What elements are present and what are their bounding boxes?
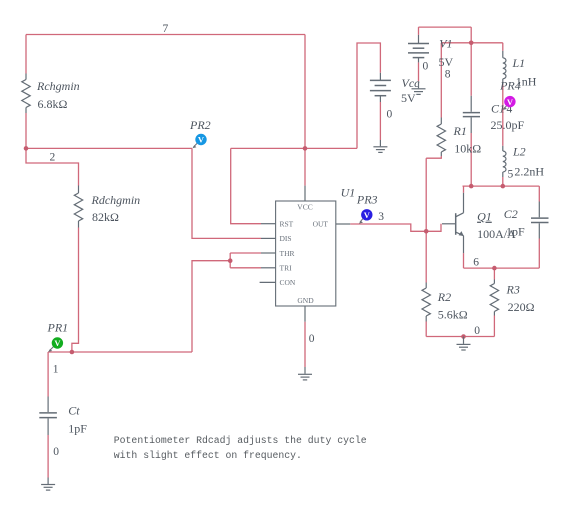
svg-text:VCC: VCC [297,203,312,212]
wire C1 top [470,43,472,96]
svg-text:DIS: DIS [280,234,292,243]
svg-text:R1: R1 [453,124,467,138]
junction node emitter R3 [492,266,497,271]
svg-text:0: 0 [53,446,59,458]
wire down to DIS pin [192,148,261,238]
wire Rchgmin bottom to junction [25,113,27,148]
junction node collector C1 [469,184,474,189]
wire bottom ground rail [426,336,494,338]
svg-text:R2: R2 [437,290,451,304]
wire C2 top [538,186,540,201]
wire R3 bottom [493,316,495,337]
wire RST riser [231,148,261,223]
svg-text:1: 1 [53,363,59,375]
svg-text:0: 0 [474,325,480,337]
wire trigger net horizontal [48,351,192,353]
wire V1 top horizontal [419,26,472,28]
svg-text:100A/A: 100A/A [477,227,516,241]
wire Ct bottom [47,435,49,478]
ground bottom rail [457,337,471,351]
capacitor C2 [504,202,549,239]
svg-text:10kΩ: 10kΩ [454,142,481,156]
wire vcc horizontal [231,147,357,149]
junction node VCC [303,146,308,151]
wire base jog [426,224,441,232]
svg-text:V: V [198,135,205,145]
resistor R1 [437,118,481,157]
svg-text:3: 3 [378,211,384,223]
ground below Vcc battery [373,140,387,152]
svg-text:C2: C2 [504,207,518,221]
svg-text:RST: RST [280,220,294,229]
svg-text:TRI: TRI [280,264,293,273]
wire collector pink [463,186,465,193]
ground below 555 [298,367,312,380]
wire THR-TRI tie [229,253,231,268]
wire 555 gnd [304,322,306,367]
svg-text:Ct: Ct [68,403,80,417]
ground below Ct [41,478,55,491]
svg-text:7: 7 [163,23,169,35]
capacitor C1 [463,96,525,133]
wire emitter net [464,267,540,269]
svg-text:Potentiometer Rdcadj adjusts t: Potentiometer Rdcadj adjusts the duty cy… [114,435,367,446]
wire R1 bottom jog [426,156,441,158]
svg-text:R3: R3 [506,282,520,296]
wire V1 net drop [470,27,472,43]
probe PR4 [499,79,521,110]
wire to TRI pin [230,267,261,269]
svg-text:L2: L2 [512,144,526,158]
resistor Rchgmin [22,74,80,114]
wire R1 top [440,43,442,118]
svg-text:25.0pF: 25.0pF [491,118,525,132]
junction node V1 plus [469,41,474,46]
probe PR2 [189,118,211,148]
wire net7 riser [304,35,306,149]
svg-text:Vcc: Vcc [402,76,421,90]
junction node THR/TRI [228,258,233,263]
probe PR1 [47,320,69,352]
svg-text:C1: C1 [491,102,505,116]
op-amp U1 555 timer box [260,185,356,321]
wire riser to THR/TRI [192,261,230,352]
resistor R2 [422,283,468,322]
wire C1 bottom [470,133,472,186]
svg-text:220Ω: 220Ω [508,300,535,314]
svg-text:8: 8 [445,69,451,81]
wire L1 to L2 [502,85,504,146]
svg-text:V: V [364,210,371,220]
svg-text:2.2nH: 2.2nH [514,165,544,179]
junction node base [424,229,429,234]
svg-text:5.6kΩ: 5.6kΩ [438,308,468,322]
junction node DIS left [24,146,29,151]
wire V1 horizontal rail [441,42,503,44]
wire Rchgmin top lead [25,35,27,74]
svg-text:5: 5 [508,169,514,181]
wire R2 bottom [425,322,427,337]
wire C2 bottom [538,239,540,269]
probe PR3 [356,193,378,224]
resistor R3 [490,280,534,316]
svg-text:PR4: PR4 [499,79,521,93]
wire V1 bottom [418,62,420,81]
resistor Rdchgmin [74,186,140,228]
inductor L1 [503,51,537,89]
wire net7 top rail [26,34,305,36]
wire Vcc battery to ground [379,102,381,140]
battery Vcc [370,73,420,105]
wire VCC pin riser [304,148,306,185]
svg-text:0: 0 [309,333,315,345]
svg-text:Rdchgmin: Rdchgmin [91,193,141,207]
svg-text:V: V [507,97,514,107]
wire collector rail [463,185,540,187]
svg-text:PR1: PR1 [47,320,69,334]
svg-text:U1: U1 [341,185,356,199]
svg-text:0: 0 [387,108,393,120]
battery V1 [408,35,454,69]
ground below V1 battery [412,81,426,94]
wire V1 top lead [418,27,420,35]
junction node collector L2 [501,184,506,189]
svg-text:5V: 5V [401,91,416,105]
wire R1 to R2 vertical [425,158,427,282]
wire to Vcc battery [357,43,380,148]
svg-text:5V: 5V [439,55,454,69]
svg-text:Q1: Q1 [477,210,492,224]
wire R3 top [493,268,495,279]
svg-text:with slight effect on frequenc: with slight effect on frequency. [114,450,302,461]
wire OUT to base node [350,224,426,231]
wire jog to Rdchgmin [26,148,79,185]
transistor Q1 [442,193,516,253]
svg-text:2: 2 [50,152,56,164]
capacitor Ct [39,397,87,436]
svg-text:CON: CON [280,278,296,287]
junction node trigger [70,350,75,355]
wire to THR pin [230,252,261,254]
svg-text:6.8kΩ: 6.8kΩ [38,97,68,111]
wire DIS net horizontal [26,147,192,149]
svg-text:V1: V1 [439,37,452,51]
svg-text:PR3: PR3 [356,193,378,207]
svg-text:Rchgmin: Rchgmin [36,79,80,93]
svg-text:GND: GND [297,296,314,305]
svg-text:L1: L1 [512,56,526,70]
wire L1 top [502,43,504,51]
wire emitter pink part [463,253,465,268]
inductor L2 [503,144,545,178]
svg-text:82kΩ: 82kΩ [92,210,119,224]
wire Ct top [47,352,49,397]
wire Rdchgmin bottom [72,228,79,353]
svg-text:6: 6 [473,256,479,268]
svg-text:OUT: OUT [313,220,329,229]
svg-text:PR2: PR2 [189,118,211,132]
svg-text:V: V [54,338,61,348]
svg-text:1pF: 1pF [68,421,87,435]
svg-text:THR: THR [280,249,295,258]
junction node ground rail [461,334,466,339]
wire L2 bottom [502,177,504,186]
svg-text:0: 0 [423,61,429,73]
